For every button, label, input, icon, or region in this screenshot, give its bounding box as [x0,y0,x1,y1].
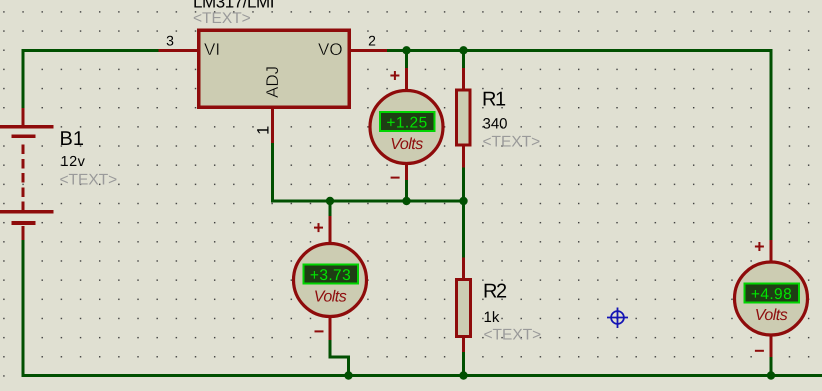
battery bottom red lead [22,226,25,240]
VM1 minus polarity mark [391,177,400,179]
wire: R2 bottom stub [462,352,465,375]
VM3 display [745,284,800,303]
R1 top red lead [462,68,465,89]
pin 1 red lead of U1 ADJ [271,109,274,143]
svg-text:R1: R1 [482,89,506,111]
svg-text:340: 340 [483,116,508,133]
voltmeter VM3 body [735,262,808,335]
svg-text:VO: VO [318,40,343,59]
pin 2 red lead of U1 VO [351,49,387,52]
wire: VM1 top stub [405,52,408,68]
R2 bottom red lead [462,338,465,352]
junction node at top rail / VM1 [402,46,410,54]
regulator U1 LM317 body [199,30,350,107]
VM1 plus polarity mark [390,71,399,80]
VM3 top red lead [770,240,773,263]
svg-text:12v: 12v [61,154,86,170]
origin marker (blue crosshair) [607,308,628,329]
svg-text:2: 2 [368,33,376,49]
svg-text:B1: B1 [60,128,84,150]
wire: right vertical down to voltmeter VM3 [770,49,773,240]
R2 top red lead [462,258,465,279]
wire: VM3 bottom stub [770,357,773,375]
battery top red lead [22,108,25,126]
VM2 display [304,265,359,284]
battery cell1 long plate [0,125,54,129]
svg-text:Volts: Volts [755,307,788,324]
svg-text:+3.73: +3.73 [310,267,351,284]
wire: VM2 jog vertical segment to ground rail [347,355,350,375]
R1 bottom red lead [462,147,465,168]
wire: top rail from VO pin to right corner [387,49,773,52]
wire: left vertical from battery bottom to bottom rail [22,240,25,377]
VM3 plus polarity mark [755,242,764,251]
battery cell2 short plate [12,221,36,225]
svg-text:Volts: Volts [390,136,423,153]
svg-text:Volts: Volts [314,289,347,306]
resistor R1 body [457,90,471,145]
wire: left vertical from top corner down to battery top [22,49,25,108]
VM3 bottom red lead [770,335,773,357]
svg-text:VI: VI [204,40,220,59]
svg-text:1k: 1k [484,309,500,326]
svg-text:+4.98: +4.98 [751,286,792,303]
voltmeter VM2 body [294,244,367,317]
junction node mid rail / VM1 [402,197,410,205]
wire: VM2 bottom vertical segment [329,339,332,359]
wire: VM2 top stub [329,202,332,216]
wire: middle horizontal rail (ADJ node) [271,200,465,203]
wire: VM2 jog horizontal segment [329,355,351,358]
svg-text:+1.25: +1.25 [386,115,427,132]
wire: R1 bottom stub [462,168,465,201]
svg-text:<TEXT>: <TEXT> [483,134,541,151]
VM3 minus polarity mark [755,350,764,352]
junction node mid rail / R1-R2 [459,197,467,205]
junction node bottom rail / VM3 [767,371,775,379]
svg-text:R2: R2 [483,281,507,303]
svg-text:<TEXT>: <TEXT> [484,327,542,344]
wire: ADJ vertical down [271,143,274,201]
wire: R2 top stub [462,202,465,258]
wire: VM1 bottom stub [405,180,408,200]
wire: R1 top stub [462,52,465,68]
svg-text:<TEXT>: <TEXT> [60,172,118,189]
junction node bottom rail / R2 [459,371,467,379]
resistor R2 body [457,280,471,337]
svg-text:3: 3 [166,33,174,49]
junction node bottom rail / VM2 [344,371,352,379]
svg-text:1: 1 [255,126,273,135]
VM2 minus polarity mark [315,330,324,332]
battery B1 [0,108,54,240]
svg-text:ADJ: ADJ [263,66,282,98]
junction node at top rail / R1 [459,46,467,54]
junction node mid rail / VM2 [326,197,334,205]
VM2 bottom red lead [329,316,332,340]
VM2 top red lead [329,216,332,244]
svg-text:<TEXT>: <TEXT> [193,10,251,27]
VM2 plus polarity mark [314,223,323,232]
pin 3 red lead of U1 VI [159,49,198,52]
VM1 bottom red lead [405,163,408,180]
voltmeter VM1 body [370,91,443,164]
VM1 display [380,112,435,131]
wire: top-left horizontal from battery to VI pin [22,49,159,52]
battery inter-cell dashed link [21,145,24,211]
wire: bottom ground rail [22,374,822,377]
battery cell1 short plate [12,134,36,138]
battery cell2 long plate [0,210,54,214]
VM1 top red lead [405,68,408,91]
